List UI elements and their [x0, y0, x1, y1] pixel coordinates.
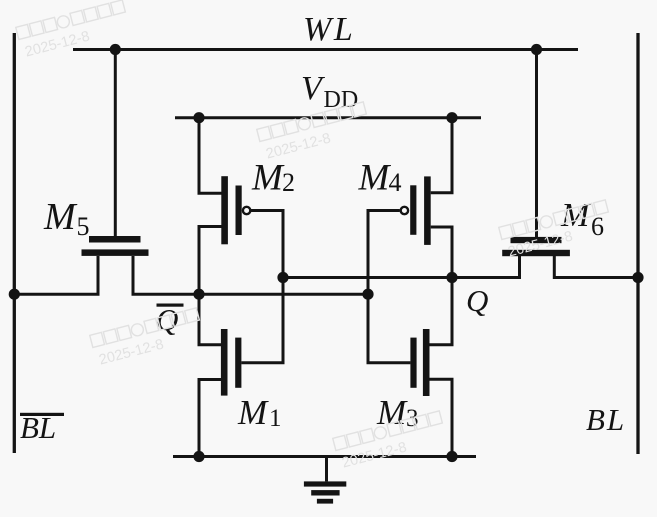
svg-text:M: M — [560, 197, 591, 234]
svg-text:M: M — [358, 158, 392, 199]
label WL — [303, 11, 355, 48]
transistor M6 (NMOS pass gate) body — [502, 237, 570, 256]
wire M4 drain to M3 source through node Q — [430, 227, 453, 345]
wire M1 drain to ground rail — [199, 380, 221, 457]
svg-text:BL: BL — [586, 402, 626, 437]
wire WL to M6 gate — [535, 50, 538, 238]
label BL — [586, 402, 626, 437]
wire M2 drain to M1 source through node Qbar — [199, 227, 222, 345]
wire BLbar vertical line — [13, 33, 16, 453]
svg-text:WL: WL — [303, 11, 355, 48]
junction node Q at M1 M2 gates — [277, 272, 288, 283]
transistor M2 (PMOS) body — [221, 176, 250, 244]
wire M3 drain to ground rail — [430, 379, 453, 456]
ground — [325, 457, 328, 482]
transistor M5 (NMOS pass gate) body — [82, 236, 149, 256]
wire WL to M5 gate — [114, 50, 117, 237]
junction ground rail at M3 — [446, 451, 457, 462]
junction on WL at M5 gate — [110, 44, 121, 55]
wire ground rail — [173, 455, 476, 458]
svg-text:M: M — [43, 196, 78, 238]
svg-text:5: 5 — [77, 212, 90, 241]
junction on VDD at M2 source — [193, 112, 204, 123]
watermark middle left — [90, 308, 205, 369]
junction BLbar at M5 — [9, 289, 20, 300]
label M6 — [560, 197, 604, 241]
label node Qbar — [156, 302, 184, 337]
svg-text:V: V — [301, 70, 326, 107]
junction on WL at M6 gate — [531, 44, 542, 55]
wire M2 and M1 gates to node Q — [241, 211, 283, 363]
transistor M3 (NMOS) body — [410, 329, 429, 396]
label M1 — [237, 393, 282, 432]
label M5 — [43, 196, 90, 241]
ground symbol bars — [304, 481, 346, 503]
wire BL vertical line — [636, 33, 639, 454]
junction node Qbar at inverter output — [193, 289, 204, 300]
wire VDD to M4 source — [431, 118, 452, 193]
wire M4 and M3 gates to node Qbar — [368, 211, 410, 363]
svg-text:1: 1 — [269, 405, 282, 432]
svg-text:2: 2 — [282, 168, 295, 197]
wire VDD rail — [175, 116, 481, 119]
wire node Q line to M6 source — [283, 256, 520, 278]
watermark top left — [16, 0, 131, 61]
label VDD — [301, 70, 358, 113]
svg-text:4: 4 — [389, 168, 402, 197]
svg-text:M: M — [251, 158, 285, 199]
junction node Qbar at M3 M4 gates — [362, 289, 373, 300]
label node Q — [466, 283, 488, 318]
watermark bottom middle — [333, 411, 448, 472]
transistor M4 (PMOS) body — [401, 176, 431, 245]
junction node Q at inverter output — [446, 272, 457, 283]
label M3 — [376, 393, 419, 432]
wire M5 drain to node Qbar — [133, 256, 368, 294]
watermark middle right — [499, 200, 614, 261]
label M2 — [251, 158, 295, 199]
transistor M1 (NMOS) body — [221, 329, 242, 396]
wire VDD to M2 source — [199, 118, 222, 194]
watermark upper middle — [257, 102, 372, 163]
svg-text:Q: Q — [466, 283, 488, 318]
svg-text:M: M — [237, 393, 269, 432]
svg-text:Q: Q — [156, 302, 178, 337]
wire WL rail — [73, 48, 578, 51]
label BLbar — [20, 410, 64, 445]
junction BL at M6 — [632, 272, 643, 283]
label M4 — [358, 158, 402, 199]
wire BLbar to M5 source — [14, 256, 98, 294]
wire M6 drain to BL — [554, 256, 638, 278]
junction ground rail at M1 — [193, 451, 204, 462]
junction on VDD at M4 source — [446, 112, 457, 123]
